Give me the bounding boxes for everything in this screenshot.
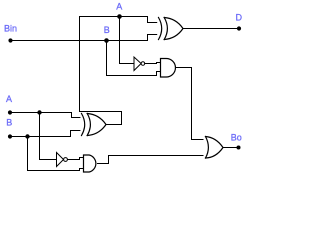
svg-text:A: A <box>6 94 12 104</box>
svg-text:Bo: Bo <box>231 132 242 142</box>
junction on Bin net <box>104 38 109 43</box>
node Bo output terminal <box>237 146 241 150</box>
svg-text:B: B <box>104 25 110 35</box>
svg-text:A: A <box>116 2 122 12</box>
wire node S (A xor B): XOR2 output up to XOR1 upper input <box>80 17 157 125</box>
not gate U5 <box>57 153 68 167</box>
node Bin input terminal <box>8 38 12 42</box>
and gate U3 <box>161 59 176 78</box>
node A input terminal <box>8 110 12 114</box>
xor gate U1 (A xor B xor Bin) <box>159 18 184 40</box>
wire OR1 output to Bo <box>223 147 239 149</box>
junction on B net <box>25 134 29 138</box>
wire AND2 output to OR1 lower input <box>98 156 204 164</box>
wire B input to XOR2 lower input <box>10 131 80 137</box>
junction on A net <box>37 110 41 114</box>
wire S tap down to NOT1 input <box>120 17 135 64</box>
svg-text:D: D <box>236 13 243 23</box>
wire A tap down to NOT2 input <box>40 113 57 160</box>
svg-text:B: B <box>6 118 12 128</box>
node D output terminal <box>237 26 241 30</box>
wire A input to XOR2 upper input <box>10 113 80 118</box>
wire XOR1 output to D <box>183 28 239 30</box>
or gate U7 <box>206 137 224 159</box>
wire NOT1 output to AND1 upper input <box>145 63 161 64</box>
xor gate U4 (A xor B) <box>82 114 107 136</box>
node B input terminal <box>8 134 12 138</box>
and gate U6 <box>84 155 96 172</box>
wire Bin net: Bin input to XOR1 lower input <box>11 35 157 41</box>
wire Bin tap down to AND1 lower input <box>107 41 161 76</box>
svg-text:Bin: Bin <box>4 24 17 34</box>
wire NOT2 output to AND2 upper input <box>68 158 84 160</box>
not gate U2 <box>134 57 145 71</box>
wire B tap down to AND2 lower input <box>28 137 84 171</box>
junction on S net <box>117 14 122 19</box>
wire AND1 output down to OR1 upper input <box>176 68 204 140</box>
